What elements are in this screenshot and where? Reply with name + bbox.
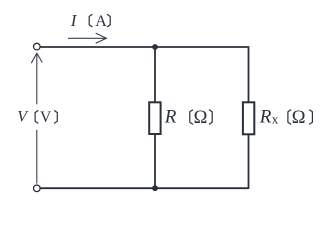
resistor R [149, 102, 160, 134]
label [Ω] (for Rx) [288, 110, 313, 125]
svg-text:R: R [164, 107, 177, 128]
node junction top [152, 44, 158, 50]
wire right upper [248, 46, 250, 102]
wire bottom [41, 187, 249, 189]
wire middle lower [154, 134, 156, 188]
label [A] [89, 14, 110, 27]
label [V] [35, 110, 57, 123]
resistor Rx [243, 102, 254, 134]
wire middle upper [154, 47, 156, 103]
svg-text:V: V [40, 109, 52, 126]
arrow I (current, pointing right) [68, 33, 106, 43]
svg-text:A: A [95, 13, 107, 30]
terminal top-left [34, 43, 41, 50]
label [Ω] (for R) [190, 110, 212, 125]
svg-text:x: x [272, 112, 279, 127]
node junction bottom [152, 185, 158, 191]
svg-text:Ω: Ω [194, 108, 208, 128]
terminal bottom-left [34, 185, 41, 192]
wire top [41, 46, 249, 48]
svg-text:R: R [259, 107, 272, 128]
arrow V (voltage, pointing up) [31, 53, 42, 183]
svg-text:Ω: Ω [292, 108, 306, 128]
wire right lower [248, 134, 250, 189]
